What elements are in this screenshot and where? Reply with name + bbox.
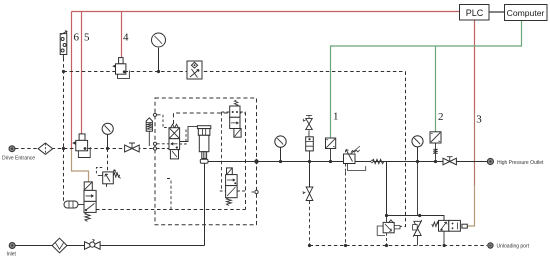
- node junction valve2: [434, 160, 437, 163]
- wire tan line 6 lower: [72, 150, 89, 182]
- wire PLC to Computer: [489, 11, 504, 13]
- wire assembly top line: [387, 216, 445, 221]
- wire dashed tank line: [310, 245, 488, 247]
- wire dashed pilot horizontal y=71.5: [64, 71, 406, 73]
- wire red line 5: [81, 12, 83, 135]
- pressure gauge G3 drive: [102, 123, 113, 148]
- HP outlet shutoff valve: [443, 157, 456, 165]
- node diamond manifold outlet: [254, 159, 260, 165]
- wire main HP line: [208, 161, 487, 163]
- central manifold outer dashed box: [155, 98, 257, 225]
- svg-text:4: 4: [123, 32, 129, 44]
- drain valve below main line: [303, 162, 313, 246]
- port circle node (155,143.8): [153, 142, 156, 145]
- dashed L near pump valve: [163, 115, 168, 128]
- spring filter component left of box: [146, 118, 152, 146]
- Inlet port: [9, 243, 15, 249]
- level indicator sensor top-left: [60, 31, 67, 58]
- 3/2 hand valve bottom-left: [84, 182, 96, 222]
- wire red line 3 mid: [474, 110, 476, 185]
- unloading assembly riser: [386, 162, 388, 216]
- wire inlet line bottom: [15, 245, 205, 247]
- throttle valve: [413, 220, 422, 246]
- node at throttle top: [418, 214, 421, 217]
- wire dashed pilot valve right: [180, 130, 186, 145]
- wire red line 4: [121, 12, 123, 58]
- wire dashes to bottom valve: [220, 190, 245, 192]
- node junction gauge G4: [157, 70, 160, 73]
- pressure gauge G1: [275, 136, 286, 162]
- wire G2 drop to throttle: [417, 162, 419, 216]
- component 4 pressure switch: [113, 58, 129, 79]
- Drive Entrance port: [9, 146, 15, 152]
- node junction at 63,71.5: [62, 70, 65, 73]
- svg-text:6: 6: [74, 32, 80, 44]
- plunger actuator capsule: [64, 201, 84, 208]
- svg-text:Unloading port: Unloading port: [497, 244, 530, 250]
- proportional valve 2: [430, 132, 441, 162]
- svg-text:3: 3: [476, 114, 482, 126]
- node junction G3: [106, 147, 109, 150]
- relief valve drive unit: [96, 168, 120, 189]
- pressure gauge G4 top: [152, 33, 166, 72]
- wire dashes to top valve: [222, 111, 246, 113]
- svg-text:Computer: Computer: [507, 8, 545, 18]
- wire red line 3: [474, 20, 476, 110]
- wire red bus top: [72, 11, 460, 13]
- component 5 pressure switch: [73, 134, 90, 158]
- wire dash to pump valve mid: [157, 143, 169, 145]
- central inner dashed box top/right: [174, 113, 246, 210]
- wire dashed vertical x=63 lower: [63, 149, 65, 202]
- inlet check/filter diamond: [52, 238, 67, 253]
- node junction at 63,148.7: [62, 147, 65, 150]
- top valve in manifold: [230, 100, 241, 137]
- wire green branch to valve 2: [435, 46, 437, 132]
- node tank junctions: [308, 244, 311, 247]
- safety valve stack x=309: [303, 115, 313, 161]
- bottom valve in manifold: [226, 168, 238, 206]
- unloading solenoid valve: [432, 220, 468, 245]
- svg-text:Drive Entrance: Drive Entrance: [2, 156, 35, 162]
- pressure gauge G2: [412, 136, 423, 162]
- pressure reducing valve: [344, 146, 366, 246]
- wire dash port to pump valve: [157, 148, 170, 150]
- node junction G1: [279, 160, 282, 163]
- wire dashed drive line y=148.7: [15, 148, 155, 150]
- wire dashed vertical x=221: [221, 112, 223, 191]
- node junction G2: [416, 160, 419, 163]
- air filter diamond: [38, 143, 53, 154]
- node junction valve1: [329, 160, 332, 163]
- svg-text:PLC: PLC: [466, 8, 484, 18]
- pump control valve (air motor): [169, 124, 180, 159]
- inner box bottom stub: [167, 179, 171, 210]
- node circle manifold port: [255, 190, 258, 193]
- svg-text:2: 2: [438, 111, 444, 123]
- inlet ball valve: [85, 239, 101, 249]
- Computer box: [505, 5, 548, 21]
- node junction x=309: [308, 160, 311, 163]
- flow control valve with check (on pilot line): [187, 61, 202, 79]
- svg-text:5: 5: [84, 32, 90, 44]
- proportional valve 1: [326, 138, 336, 162]
- node top line: [385, 214, 388, 217]
- shutoff valve drive line: [125, 143, 140, 152]
- svg-text:1: 1: [333, 111, 339, 123]
- pilot relief valve: [377, 216, 400, 246]
- Unloading port: [488, 243, 493, 248]
- wire cylinder suction down: [204, 163, 206, 245]
- wire dashed pilot vertical x=405.8: [400, 72, 406, 227]
- wire dashed G3 to relief valve: [107, 149, 109, 172]
- wire green from computer: [331, 21, 522, 138]
- PLC box U-PLC: [460, 5, 490, 21]
- wire dashed pilot y=209.5: [96, 209, 246, 211]
- wire pump valve to cylinder: [180, 127, 198, 142]
- port circle node (155,114.8): [153, 113, 156, 116]
- High Pressure Outlet port: [487, 158, 493, 164]
- port circle node (155,148.7): [153, 147, 156, 150]
- wire dashed vertical x=63 upper: [63, 58, 65, 149]
- wire tan line 3 lower: [467, 185, 474, 226]
- gas booster cylinder: [197, 126, 210, 164]
- svg-text:High Pressure Outlet: High Pressure Outlet: [497, 160, 544, 166]
- wire red line 6: [71, 12, 73, 150]
- orifice restrictor: [372, 159, 384, 163]
- svg-text:Inlet: Inlet: [7, 252, 17, 258]
